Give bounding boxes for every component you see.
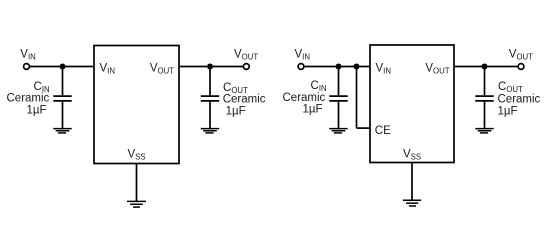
- svg-text:Ceramic: Ceramic: [223, 94, 266, 106]
- label COUT value (right): [498, 81, 541, 117]
- node junction CE tap: [354, 64, 360, 70]
- wire CE vertical drop: [356, 67, 358, 129]
- pin label VIN (U1): [100, 63, 115, 76]
- capacitor COUT (right): [475, 96, 493, 101]
- wire CIN bottom lead (right): [338, 101, 340, 129]
- svg-text:1µF: 1µF: [303, 104, 323, 116]
- label VOUT (right output terminal): [509, 49, 533, 62]
- pin label CE (U2): [375, 125, 391, 137]
- pin label VOUT (U1): [150, 63, 174, 76]
- node junction CIN: [60, 64, 66, 70]
- node VIN terminal (right circuit): [298, 64, 304, 70]
- svg-text:1µF: 1µF: [498, 105, 518, 117]
- svg-text:Ceramic: Ceramic: [498, 94, 541, 106]
- capacitor CIN (left): [53, 96, 71, 101]
- label COUT value (left): [223, 82, 266, 118]
- wire VSS lead (left): [136, 164, 138, 202]
- node junction COUT (right): [482, 64, 488, 70]
- IC U2 (right regulator body): [370, 45, 454, 163]
- capacitor CIN (right): [329, 96, 347, 101]
- svg-text:1µF: 1µF: [27, 104, 47, 116]
- ground (under U2 VSS): [403, 200, 421, 206]
- svg-text:Ceramic: Ceramic: [283, 92, 326, 104]
- node VOUT terminal (left circuit): [243, 64, 249, 70]
- wire COUT bottom lead (right): [484, 101, 486, 129]
- pin label VOUT (U2): [425, 63, 449, 76]
- wire input rail left: [30, 66, 94, 68]
- ground (under COUT right): [475, 129, 493, 133]
- wire CIN bottom lead: [62, 101, 64, 129]
- wire CIN top lead: [62, 67, 64, 97]
- wire CE into pin: [357, 127, 371, 129]
- wire output rail left: [179, 66, 243, 68]
- IC U1 (left regulator body): [94, 46, 179, 164]
- pin label VIN (U2): [376, 63, 391, 76]
- wire VSS lead (right): [411, 163, 413, 201]
- wire COUT top lead (right): [484, 67, 486, 97]
- label VIN (right input terminal): [295, 49, 310, 62]
- wire input rail right: [304, 66, 370, 68]
- wire COUT bottom lead (left): [209, 101, 211, 129]
- node VOUT terminal (right circuit): [518, 64, 524, 70]
- label CIN value (right): [283, 80, 327, 115]
- svg-text:1µF: 1µF: [226, 105, 246, 117]
- node VIN terminal (left circuit): [24, 64, 30, 70]
- wire output rail right: [454, 66, 518, 68]
- ground (under COUT left): [201, 129, 219, 133]
- label VOUT (left output terminal): [234, 49, 258, 62]
- ground (under CIN right): [329, 129, 347, 133]
- wire COUT top lead (left): [209, 67, 211, 97]
- svg-text:Ceramic: Ceramic: [7, 93, 50, 105]
- label VIN (left input terminal): [20, 49, 35, 62]
- capacitor COUT (left): [201, 96, 219, 101]
- pin label VSS (U2): [403, 148, 421, 161]
- ground (under CIN left): [53, 129, 71, 133]
- ground (under U1 VSS): [127, 201, 146, 207]
- node junction COUT (left): [207, 64, 213, 70]
- pin label VSS (U1): [127, 149, 145, 162]
- label CIN value (left): [7, 81, 50, 116]
- svg-text:CE: CE: [375, 125, 391, 137]
- wire CIN top lead (right): [338, 67, 340, 97]
- node junction CIN (right): [336, 64, 342, 70]
